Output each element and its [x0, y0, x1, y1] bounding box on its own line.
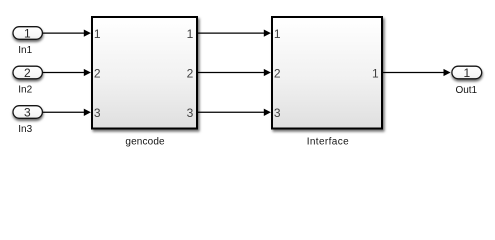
inport In1	[13, 26, 42, 56]
wire gencode port 3 to Interface port 3	[198, 109, 271, 116]
svg-text:1: 1	[24, 26, 31, 40]
svg-text:1: 1	[187, 27, 194, 41]
svg-text:1: 1	[94, 27, 101, 41]
svg-text:In2: In2	[18, 85, 32, 96]
wire gencode port 1 to Interface port 1	[198, 29, 271, 36]
svg-text:2: 2	[274, 66, 281, 80]
svg-text:1: 1	[274, 27, 281, 41]
subsystem block gencode	[92, 17, 197, 148]
inport In2	[13, 66, 42, 96]
wire gencode port 2 to Interface port 2	[198, 69, 271, 76]
svg-text:2: 2	[94, 66, 101, 80]
svg-text:2: 2	[187, 66, 194, 80]
outport Out1	[452, 66, 482, 96]
subsystem block Interface	[272, 17, 382, 148]
wire Interface port 1 to Out1	[383, 69, 451, 76]
svg-text:3: 3	[24, 105, 31, 119]
svg-text:2: 2	[24, 66, 31, 80]
svg-text:3: 3	[274, 106, 281, 120]
svg-text:Interface: Interface	[307, 137, 349, 148]
svg-text:Out1: Out1	[456, 85, 478, 96]
wire In2 to gencode port 2	[43, 69, 91, 76]
svg-text:gencode: gencode	[125, 137, 165, 148]
svg-text:3: 3	[94, 106, 101, 120]
inport In3	[13, 105, 42, 135]
svg-text:1: 1	[372, 66, 379, 80]
wire In1 to gencode port 1	[43, 29, 91, 36]
svg-text:In3: In3	[18, 124, 32, 135]
wire In3 to gencode port 3	[43, 109, 91, 116]
svg-text:1: 1	[463, 66, 470, 80]
svg-text:In1: In1	[18, 45, 32, 56]
svg-text:3: 3	[187, 106, 194, 120]
